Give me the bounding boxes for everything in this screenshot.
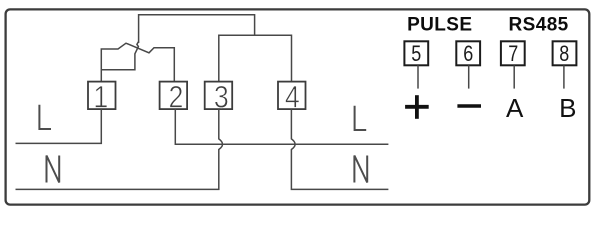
wire: terminal 2 to load L bbox=[175, 109, 388, 144]
outer border frame bbox=[6, 9, 590, 204]
label L (right) bbox=[355, 106, 367, 130]
svg-text:5: 5 bbox=[411, 42, 421, 66]
svg-text:3: 3 bbox=[214, 80, 229, 114]
switch drop wire (from top bus through crossing to lower hook) bbox=[101, 42, 138, 70]
pin stub 8 bbox=[563, 65, 565, 88]
svg-text:6: 6 bbox=[463, 42, 473, 66]
wire: junction bar to terminals 3 and 4 bbox=[219, 35, 292, 81]
terminal box 4 bbox=[278, 82, 306, 110]
svg-text:8: 8 bbox=[559, 42, 569, 66]
svg-text:A: A bbox=[506, 93, 524, 123]
wire: supply L to terminal 1 bbox=[16, 109, 102, 143]
terminal box 1 bbox=[88, 82, 116, 110]
wire: top bus bbox=[139, 15, 255, 43]
svg-text:B: B bbox=[559, 93, 576, 123]
label L (left) bbox=[39, 105, 51, 129]
pin stub 7 bbox=[513, 65, 515, 88]
terminal box 6 bbox=[456, 41, 480, 65]
pulse plus symbol bbox=[405, 95, 429, 119]
pin stub 6 bbox=[468, 65, 470, 88]
switch blade (terminal 1 to terminal 2 link, crossing X) bbox=[101, 43, 174, 81]
terminal box 5 bbox=[404, 41, 428, 65]
pin stub 5 bbox=[417, 65, 419, 88]
terminal box 7 bbox=[501, 41, 525, 65]
terminal box 2 bbox=[160, 82, 188, 110]
svg-text:RS485: RS485 bbox=[509, 15, 569, 36]
svg-text:PULSE: PULSE bbox=[407, 15, 472, 36]
pulse minus symbol bbox=[457, 104, 481, 108]
label N (right) bbox=[354, 156, 367, 183]
terminal box 3 bbox=[205, 82, 233, 110]
terminal box 8 bbox=[553, 41, 577, 65]
svg-text:4: 4 bbox=[285, 80, 300, 114]
svg-text:7: 7 bbox=[508, 42, 518, 66]
label N (left) bbox=[47, 156, 60, 183]
wire: terminal 4 down with hop over L wire, to load N bbox=[291, 109, 388, 189]
wire: terminal 3 down with hop over L wire, to supply N bbox=[16, 109, 223, 189]
